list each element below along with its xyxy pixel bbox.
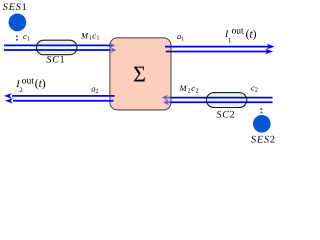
arrowhead violet into box bottom-right b with stub — [167, 101, 170, 103]
arrowhead blue output right a — [267, 44, 275, 50]
svg-text:1: 1 — [27, 35, 30, 42]
wire bottom-right pair line a — [170, 97, 272, 99]
wire top-right pair line b — [166, 51, 270, 53]
arrowhead blue output left b — [5, 98, 13, 104]
svg-text:SES2: SES2 — [251, 134, 276, 145]
node SES2 circle — [253, 115, 271, 133]
svg-text:out: out — [22, 76, 35, 86]
summation box U1 — [110, 38, 171, 110]
svg-text:SC1: SC1 — [46, 54, 65, 65]
arrowhead blue output right b — [265, 49, 273, 55]
svg-text:SES1: SES1 — [3, 2, 28, 13]
arrowhead blue output left a — [4, 93, 12, 99]
dotted connector SES2 — [260, 108, 262, 110]
wire bottom-right pair line b — [170, 101, 272, 103]
svg-text:Σ: Σ — [133, 62, 146, 87]
arrowhead violet into box top-left b — [111, 47, 117, 53]
svg-text:M: M — [80, 30, 89, 40]
shaper SC1 fill — [36, 40, 77, 55]
Sigma glyph — [133, 62, 146, 87]
svg-text:SC2: SC2 — [216, 109, 235, 120]
dotted connector SES1 — [16, 35, 18, 37]
arrowhead violet into box bottom-right a with stub — [166, 97, 170, 99]
svg-text:1: 1 — [181, 37, 184, 43]
svg-text:out: out — [232, 27, 245, 37]
svg-text:M: M — [179, 83, 188, 93]
wire bottom-left pair line b — [13, 100, 114, 102]
svg-text:1: 1 — [228, 37, 231, 44]
svg-text:2: 2 — [95, 89, 98, 95]
svg-text:1: 1 — [96, 35, 99, 42]
svg-text:2: 2 — [196, 87, 199, 94]
arrowhead violet into box top-left a — [109, 43, 115, 49]
svg-text:2: 2 — [255, 87, 258, 94]
node SES1 circle — [9, 14, 27, 32]
shaper SC2 fill — [206, 93, 246, 108]
svg-text:2: 2 — [19, 87, 23, 94]
wire top-left pair line b — [4, 49, 111, 51]
svg-text:(t): (t) — [35, 78, 46, 90]
wire top-left pair line a — [4, 44, 111, 46]
shaper SC1 border — [36, 40, 77, 55]
shaper SC2 border — [206, 93, 246, 108]
svg-text:(t): (t) — [246, 28, 257, 40]
wire bottom-left pair line a — [12, 95, 115, 97]
wire top-right pair line a — [165, 46, 271, 48]
